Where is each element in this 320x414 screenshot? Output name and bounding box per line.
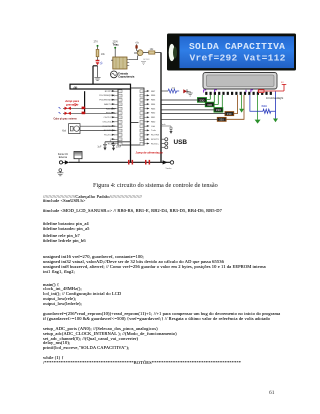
svg-text:8: 8 <box>120 122 121 124</box>
svg-text:20: 20 <box>142 126 144 128</box>
capacitor C1 <box>103 142 107 148</box>
jumper J1 (red) <box>82 107 86 110</box>
wire fonte to rail <box>78 159 80 163</box>
resistor RB7 (blue zigzag) <box>168 89 179 93</box>
ground D2 <box>188 91 193 96</box>
svg-text:RB0: RB0 <box>151 121 156 123</box>
svg-text:RB4: RB4 <box>151 104 156 106</box>
ground 27V branch <box>94 78 100 81</box>
LCD photo <box>167 34 296 71</box>
svg-text:19: 19 <box>142 131 144 133</box>
wire brown R6 riser <box>226 95 244 119</box>
button B1 (red) <box>65 107 71 110</box>
svg-text:27V: 27V <box>94 40 99 43</box>
svg-text:Xtal: Xtal <box>62 129 66 132</box>
svg-text:330: 330 <box>227 112 232 116</box>
wire Triac to opto <box>114 49 116 57</box>
svg-text:SOLDA CAPACITIVA: SOLDA CAPACITIVA <box>189 41 285 52</box>
jumper marks (red) <box>128 160 130 165</box>
svg-text:26: 26 <box>142 100 144 102</box>
svg-text:330: 330 <box>219 118 224 122</box>
svg-text:10: 10 <box>120 131 122 133</box>
svg-text:13: 13 <box>120 144 122 146</box>
wire green pin5 to R4 <box>221 95 223 108</box>
resistor R8 <box>96 50 99 57</box>
U1 right pin boxes <box>140 90 144 145</box>
schematic figure <box>0 0 320 180</box>
svg-text:RB3: RB3 <box>151 108 156 110</box>
U1 left pin arrows <box>112 90 115 145</box>
U1 right pin arrows <box>147 90 150 145</box>
capacitor C2 <box>111 142 115 148</box>
backlight resistor (blue) <box>250 95 276 113</box>
svg-text:23: 23 <box>142 113 144 115</box>
connector Vin circle-arrow <box>59 161 62 164</box>
svg-text:USB: USB <box>174 139 188 146</box>
crystal X1 <box>62 124 80 134</box>
wire brown R5 riser <box>234 95 238 114</box>
svg-text:RB2: RB2 <box>151 113 156 115</box>
svg-text:RC6/TX: RC6/TX <box>151 139 159 141</box>
svg-text:Jump de alimentação: Jump de alimentação <box>136 151 164 155</box>
wire blue backlight <box>275 92 277 119</box>
svg-text:3: 3 <box>120 100 121 102</box>
wire green pin2 to R2 <box>207 95 211 99</box>
optocoupler U2 <box>111 57 129 69</box>
resistor R2 (green) <box>198 98 207 103</box>
wire vertical from Q1 resistor <box>160 52 162 162</box>
svg-text:Triac: Triac <box>113 43 120 47</box>
U1 right pin labels <box>151 91 160 146</box>
svg-text:Tusb: Tusb <box>151 130 157 132</box>
svg-text:330: 330 <box>216 108 221 112</box>
svg-text:Vusb+: Vusb+ <box>166 168 173 170</box>
svg-text:16: 16 <box>142 144 144 146</box>
code block <box>43 195 142 200</box>
wire U1 inner Vss tap <box>131 122 139 124</box>
wire Vdd caps <box>105 141 131 143</box>
svg-text:10k: 10k <box>101 53 106 56</box>
svg-text:Externa: Externa <box>59 156 68 159</box>
USB D0 pad <box>161 146 165 148</box>
svg-text:Capacitancia: Capacitancia <box>118 75 135 79</box>
svg-text:27: 27 <box>142 96 144 98</box>
svg-text:1uF: 1uF <box>97 147 102 149</box>
svg-text:RC7/RX: RC7/RX <box>151 135 160 137</box>
wire RA4 row <box>63 107 116 109</box>
svg-text:RB5: RB5 <box>151 100 156 102</box>
resistor R3 (green) <box>205 102 214 107</box>
resistor R6 (brown) <box>217 117 226 121</box>
diode D3 <box>136 44 138 50</box>
svg-text:6: 6 <box>120 113 121 115</box>
svg-text:5V: 5V <box>281 82 284 84</box>
pin1 marker (purple) <box>204 90 207 93</box>
svg-text:RB6: RB6 <box>151 95 156 97</box>
svg-text:330: 330 <box>199 98 204 102</box>
wire box to jumpers <box>84 91 86 113</box>
power label (red) <box>259 90 265 93</box>
svg-text:22: 22 <box>142 117 144 119</box>
wire RB4 to R4 <box>161 109 214 111</box>
U1 left pin boxes <box>118 90 122 145</box>
svg-text:9: 9 <box>120 126 121 128</box>
connector Vusb+ <box>163 160 168 164</box>
svg-text:1: 1 <box>120 91 121 93</box>
LED D2 <box>183 89 187 93</box>
source symbol (Entrada Capacitancia) <box>111 71 135 79</box>
svg-text:7: 7 <box>120 117 121 119</box>
svg-text:18: 18 <box>142 135 144 137</box>
transistor Q1 <box>137 50 143 56</box>
ground pin14 (green arrow) <box>257 95 259 120</box>
wire OSC1 <box>80 125 116 127</box>
wire RB6 to R2 <box>161 99 198 101</box>
svg-text:Vusb: Vusb <box>161 124 167 126</box>
USB D+ pad <box>161 143 165 145</box>
wire green pin3 to R3 <box>213 95 215 102</box>
svg-text:4: 4 <box>120 104 121 106</box>
svg-text:10k: 10k <box>172 87 176 89</box>
U1 left pin labels <box>99 91 116 146</box>
svg-text:RB1: RB1 <box>151 117 156 119</box>
LCD module LCD1 <box>203 73 277 90</box>
resistor R9 <box>143 52 161 54</box>
svg-text:390Ω: 390Ω <box>261 105 267 108</box>
svg-text:BC548: BC548 <box>143 59 150 61</box>
net box (b) <box>70 84 131 89</box>
ground pin10 (green arrow) <box>241 95 243 109</box>
wire RB3 to R5 <box>161 113 225 115</box>
pin13 marker (purple) <box>215 90 253 93</box>
svg-text:RC5/D+: RC5/D+ <box>151 143 160 145</box>
resistor R4 (green) <box>214 108 223 113</box>
wire junction to bus <box>93 66 98 85</box>
svg-text:24: 24 <box>142 109 144 111</box>
svg-text:Cabo p/ grav. externo: Cabo p/ grav. externo <box>54 118 78 121</box>
svg-text:5: 5 <box>120 109 121 111</box>
wire green pin4 to R4 <box>214 95 218 105</box>
page number <box>269 390 275 396</box>
svg-text:RA5/AN4: RA5/AN4 <box>106 107 116 110</box>
power rail <box>69 161 170 163</box>
svg-text:10uF: 10uF <box>116 147 122 149</box>
svg-text:17: 17 <box>142 139 144 141</box>
svg-text:(b): (b) <box>74 86 78 90</box>
USB D- pad <box>161 138 165 140</box>
svg-text:+5v: +5v <box>135 43 140 45</box>
LCD pin header (16 pins) <box>205 92 272 95</box>
ground Q1 <box>141 62 146 65</box>
ground fonte <box>59 169 62 172</box>
svg-text:21: 21 <box>142 122 144 124</box>
svg-text:Vref=292 Vat=112: Vref=292 Vat=112 <box>190 52 286 63</box>
LED D1 <box>96 60 100 62</box>
svg-text:25: 25 <box>142 104 144 106</box>
wire RA5 row <box>63 112 116 114</box>
wire vertical through U1 <box>130 89 132 162</box>
svg-text:RB7: RB7 <box>151 91 156 93</box>
microcontroller U1 body <box>118 88 144 145</box>
wire OSC2 <box>80 130 116 132</box>
connector J2 <box>74 152 82 159</box>
wire 5V red to LCD <box>258 84 287 91</box>
svg-text:12: 12 <box>120 139 122 141</box>
ground backlight (green arrow) <box>273 119 278 123</box>
svg-text:28: 28 <box>142 91 144 93</box>
svg-text:Vdd: Vdd <box>151 126 156 128</box>
svg-text:2: 2 <box>120 96 121 98</box>
svg-text:11: 11 <box>120 135 122 137</box>
wire RB2 to R6 <box>161 118 217 120</box>
resistor R5 (brown) <box>225 112 234 116</box>
svg-text:10 kΩ backlight: 10 kΩ backlight <box>266 97 283 100</box>
caption <box>93 182 218 189</box>
wire RB5 to R3 <box>161 103 205 105</box>
wire 27V branch <box>97 47 99 78</box>
svg-text:330: 330 <box>207 103 212 107</box>
wire RB7 to led <box>161 90 168 92</box>
Vusb capacitor C3 <box>161 126 173 131</box>
